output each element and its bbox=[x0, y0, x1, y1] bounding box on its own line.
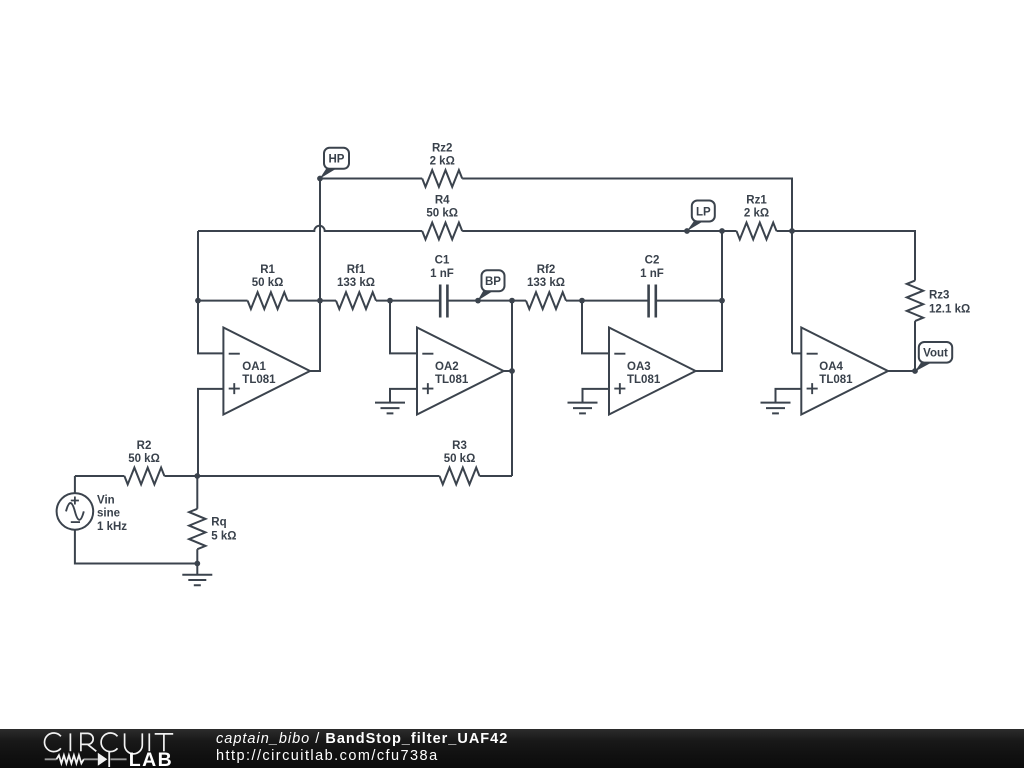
svg-text:OA1: OA1 bbox=[242, 361, 266, 373]
svg-text:133 kΩ: 133 kΩ bbox=[527, 277, 565, 289]
svg-text:Rz2: Rz2 bbox=[432, 142, 452, 154]
svg-text:Vin: Vin bbox=[97, 494, 115, 506]
svg-text:Rz1: Rz1 bbox=[746, 195, 767, 207]
svg-text:Rz3: Rz3 bbox=[929, 290, 949, 302]
svg-text:C2: C2 bbox=[645, 255, 660, 267]
svg-text:LP: LP bbox=[696, 206, 711, 218]
svg-text:12.1 kΩ: 12.1 kΩ bbox=[929, 304, 970, 316]
svg-text:TL081: TL081 bbox=[435, 374, 469, 386]
svg-text:OA4: OA4 bbox=[819, 361, 843, 373]
svg-text:Rq: Rq bbox=[211, 517, 226, 529]
svg-text:Rf2: Rf2 bbox=[537, 264, 556, 276]
svg-text:C1: C1 bbox=[435, 255, 450, 267]
svg-text:133 kΩ: 133 kΩ bbox=[337, 277, 375, 289]
svg-text:1 kHz: 1 kHz bbox=[97, 521, 127, 533]
svg-text:OA2: OA2 bbox=[435, 361, 459, 373]
svg-text:50 kΩ: 50 kΩ bbox=[252, 277, 284, 289]
svg-text:2 kΩ: 2 kΩ bbox=[430, 156, 455, 168]
svg-text:R1: R1 bbox=[260, 264, 275, 276]
svg-text:1 nF: 1 nF bbox=[640, 268, 664, 280]
svg-text:TL081: TL081 bbox=[627, 374, 661, 386]
svg-text:TL081: TL081 bbox=[819, 374, 853, 386]
svg-text:R2: R2 bbox=[137, 440, 152, 452]
svg-text:50 kΩ: 50 kΩ bbox=[444, 453, 476, 465]
svg-text:5 kΩ: 5 kΩ bbox=[211, 531, 236, 543]
svg-text:2 kΩ: 2 kΩ bbox=[744, 208, 769, 220]
svg-text:50 kΩ: 50 kΩ bbox=[128, 453, 160, 465]
svg-text:LAB: LAB bbox=[129, 749, 173, 768]
svg-text:R3: R3 bbox=[452, 440, 467, 452]
svg-text:50 kΩ: 50 kΩ bbox=[426, 208, 458, 220]
svg-text:HP: HP bbox=[329, 154, 345, 166]
svg-text:TL081: TL081 bbox=[242, 374, 276, 386]
svg-text:1 nF: 1 nF bbox=[430, 268, 454, 280]
svg-text:R4: R4 bbox=[435, 195, 450, 207]
svg-text:sine: sine bbox=[97, 508, 120, 520]
svg-text:BP: BP bbox=[485, 276, 501, 288]
svg-text:OA3: OA3 bbox=[627, 361, 651, 373]
svg-text:Rf1: Rf1 bbox=[347, 264, 366, 276]
svg-text:Vout: Vout bbox=[923, 347, 948, 359]
